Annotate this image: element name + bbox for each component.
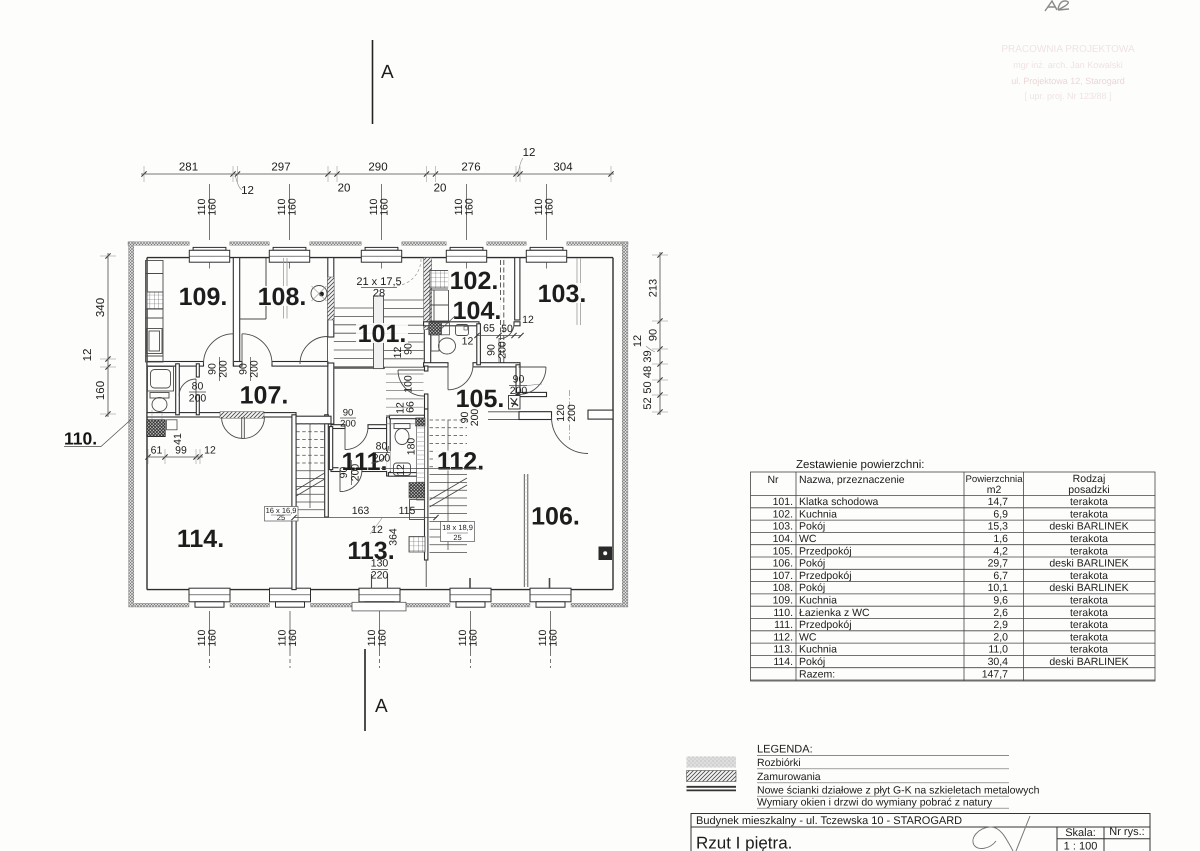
sink room 113 grid: [409, 537, 425, 553]
wall 101|102 with zamurowanie: [424, 258, 430, 366]
door 111 top: [345, 427, 368, 450]
zamurowanie patch in wall 108|101: [328, 277, 335, 320]
svg-text:Klatka schodowa: Klatka schodowa: [799, 496, 879, 508]
svg-text:220: 220: [371, 570, 389, 582]
svg-text:deski BARLINEK: deski BARLINEK: [1049, 558, 1128, 570]
door 110: [179, 379, 196, 396]
svg-text:39: 39: [642, 350, 654, 362]
svg-text:200: 200: [249, 360, 261, 378]
svg-text:12: 12: [523, 147, 536, 159]
wall 110,107|114: [147, 413, 296, 417]
wall 103|106 left of door: [519, 412, 552, 420]
svg-text:Budynek mieszkalny - ul. Tczew: Budynek mieszkalny - ul. Tczewska 10 - S…: [696, 815, 962, 827]
svg-text:Skala:: Skala:: [1065, 827, 1096, 839]
stair main 101 left flight: [334, 308, 385, 368]
svg-text:Nr: Nr: [767, 474, 779, 486]
toilet room 104: [431, 335, 456, 354]
svg-text:9,6: 9,6: [993, 595, 1008, 607]
svg-text:102.: 102.: [773, 508, 793, 520]
table rows: [773, 496, 1129, 680]
svg-text:Rzut I piętra.: Rzut I piętra.: [696, 834, 792, 851]
svg-text:Zamurowania: Zamurowania: [757, 771, 821, 783]
svg-text:50: 50: [501, 323, 513, 335]
left dimension column: [82, 253, 116, 417]
svg-text:deski BARLINEK: deski BARLINEK: [1049, 521, 1128, 533]
wall 111,112 vertical: [387, 417, 391, 476]
signature squiggle: [973, 816, 1030, 851]
svg-text:200: 200: [373, 453, 391, 465]
svg-text:1,6: 1,6: [993, 533, 1008, 545]
svg-text:160: 160: [207, 629, 219, 647]
svg-text:mgr inż. arch. Jan Kowalski: mgr inż. arch. Jan Kowalski: [1013, 60, 1123, 70]
svg-text:20: 20: [434, 183, 447, 195]
stove circle room 108: [311, 286, 327, 302]
svg-text:LEGENDA:: LEGENDA:: [757, 744, 813, 756]
svg-text:200: 200: [469, 409, 481, 427]
svg-text:25: 25: [453, 533, 461, 542]
svg-text:ul. Projektowa 12, Starogard: ul. Projektowa 12, Starogard: [1011, 76, 1125, 86]
wall 105 nook bottom: [518, 392, 547, 396]
washbasin room 112: [394, 463, 411, 476]
section line A bottom: [364, 649, 366, 731]
legend zamurowania swatch: [687, 771, 737, 782]
room110 wall right: [176, 364, 180, 415]
wall 104 right side: [477, 324, 481, 365]
washbasin room 104: [456, 325, 469, 336]
stair main 101 stringer: [374, 296, 384, 369]
svg-text:114.: 114.: [773, 656, 793, 668]
svg-text:Nr rys.:: Nr rys.:: [1109, 826, 1144, 838]
balcony door jambs: [372, 574, 388, 589]
door 120 to room 106: [552, 417, 589, 454]
room 111 left wall: [329, 427, 332, 470]
svg-text:Pokój: Pokój: [799, 558, 825, 570]
svg-text:A: A: [375, 696, 388, 717]
door 109: [204, 334, 234, 364]
right dimension column: [632, 252, 668, 415]
wall 109|108: [233, 258, 239, 366]
svg-text:90: 90: [338, 467, 350, 479]
svg-text:12: 12: [522, 314, 534, 326]
svg-text:terakota: terakota: [1070, 631, 1108, 643]
svg-text:99: 99: [175, 445, 187, 457]
legend g-k walls swatch: [687, 786, 737, 788]
svg-text:52: 52: [642, 397, 654, 409]
svg-text:160: 160: [468, 629, 480, 647]
svg-text:25: 25: [277, 513, 285, 522]
svg-text:110.: 110.: [773, 607, 793, 619]
svg-text:90: 90: [648, 329, 660, 341]
wall segment 104|102 right + door 50: [514, 322, 520, 326]
svg-text:213: 213: [648, 279, 660, 297]
wall 102|104: [424, 322, 479, 326]
svg-text:200: 200: [497, 341, 509, 359]
svg-text:12: 12: [395, 464, 407, 476]
toilet room 110: [150, 393, 169, 412]
wall 102|103: [515, 258, 520, 320]
entry corridor steps below stair: [386, 374, 424, 424]
svg-text:160: 160: [377, 629, 389, 647]
door 104 to 105: [448, 365, 473, 390]
svg-text:105.: 105.: [773, 545, 793, 557]
svg-text:200: 200: [566, 404, 578, 422]
svg-text:110.: 110.: [64, 429, 97, 449]
svg-text:109.: 109.: [773, 595, 793, 607]
wall 105|103 lower: [516, 365, 520, 395]
wall 103,105|106 thin double: [488, 412, 552, 420]
svg-text:Zestawienie powierzchni:: Zestawienie powierzchni:: [796, 459, 924, 471]
small cabinet right of chimney: [167, 420, 178, 430]
partition 105|103 double line: [501, 260, 504, 364]
svg-text:1 : 100: 1 : 100: [1064, 841, 1098, 851]
svg-text:112.: 112.: [437, 448, 484, 476]
dashed door swing stairwell top: [394, 259, 421, 286]
svg-text:65: 65: [483, 323, 495, 335]
svg-text:Pokój: Pokój: [799, 521, 825, 533]
fixture room 105 dark: [509, 396, 521, 410]
table header: [767, 473, 1109, 496]
svg-text:50: 50: [642, 381, 654, 393]
corridor right wall stubs: [425, 366, 428, 371]
wall 103|106 right of door: [588, 410, 613, 419]
leader under 112: [381, 468, 481, 470]
exterior wall top hatched band: [128, 242, 628, 245]
svg-text:Przedpokój: Przedpokój: [799, 545, 852, 557]
svg-text:11,0: 11,0: [988, 644, 1008, 656]
svg-text:Pokój: Pokój: [799, 656, 825, 668]
svg-text:terakota: terakota: [1070, 496, 1108, 508]
svg-text:28: 28: [373, 288, 385, 300]
svg-text:160: 160: [95, 381, 107, 400]
svg-text:115: 115: [399, 505, 416, 517]
svg-text:Kuchnia: Kuchnia: [799, 508, 837, 520]
svg-text:Razem:: Razem:: [799, 668, 835, 680]
svg-text:163: 163: [352, 505, 370, 517]
exterior wall bottom hatched band: [135, 603, 622, 607]
bottom windows: [189, 588, 571, 607]
wall 104|105: [424, 363, 448, 367]
svg-text:90: 90: [403, 343, 415, 355]
kitchen counter room 109: [146, 261, 164, 363]
svg-text:61: 61: [151, 445, 163, 457]
demolition line in room 103: [577, 258, 581, 325]
svg-text:113.: 113.: [773, 644, 793, 656]
door 101 to 105 entry: [398, 370, 424, 396]
leader 104: [440, 316, 455, 330]
svg-text:104.: 104.: [773, 533, 793, 545]
svg-text:108.: 108.: [773, 582, 793, 594]
svg-text:340: 340: [95, 298, 107, 317]
faint stamp top right: [1001, 44, 1135, 101]
room 111 bottom wall: [331, 468, 340, 472]
section line A top: [372, 40, 374, 124]
svg-text:[ upr. proj. Nr 123/88 ]: [ upr. proj. Nr 123/88 ]: [1024, 91, 1111, 101]
svg-text:101.: 101.: [358, 320, 407, 348]
svg-text:4,2: 4,2: [993, 545, 1008, 557]
partition rungs: [524, 476, 528, 584]
svg-text:109.: 109.: [179, 283, 228, 311]
svg-text:103.: 103.: [773, 521, 793, 533]
stair main 101 right flight: [384, 300, 424, 367]
svg-text:6,7: 6,7: [993, 570, 1008, 582]
svg-text:2,0: 2,0: [993, 631, 1008, 643]
svg-text:30,4: 30,4: [988, 656, 1009, 668]
stove room 102 dark: [429, 323, 442, 335]
wall 112 bottom: [388, 473, 427, 477]
demolition line in room 108: [284, 258, 288, 319]
washbasin room 110 dashed: [152, 410, 162, 424]
svg-text:2,6: 2,6: [993, 607, 1008, 619]
exterior wall left hatched band: [129, 242, 134, 607]
svg-text:15,3: 15,3: [988, 521, 1009, 533]
svg-text:160: 160: [544, 198, 556, 216]
svg-text:deski BARLINEK: deski BARLINEK: [1049, 582, 1128, 594]
svg-text:48: 48: [642, 366, 654, 378]
bottom window centerlines and labels: [196, 611, 560, 668]
dim 61 99 12 under room 110: [145, 445, 216, 465]
double door 107 to 114: [222, 417, 265, 439]
room 111 top wall: [331, 425, 345, 429]
svg-text:Rozbiórki: Rozbiórki: [757, 757, 801, 769]
svg-text:6,9: 6,9: [993, 508, 1008, 520]
svg-text:200: 200: [218, 360, 230, 378]
handwritten A2 mark: [1045, 1, 1069, 11]
door 105 to 103 nook: [519, 367, 547, 395]
svg-text:114.: 114.: [177, 525, 224, 553]
svg-text:200: 200: [510, 385, 528, 397]
svg-text:108.: 108.: [258, 283, 307, 311]
svg-text:12: 12: [241, 185, 254, 197]
kitchen block room 102: [430, 271, 449, 322]
svg-text:276: 276: [461, 162, 480, 174]
svg-text:21 x 17,5: 21 x 17,5: [356, 276, 401, 288]
svg-text:14,7: 14,7: [988, 496, 1009, 508]
door 108: [242, 334, 272, 364]
svg-text:160: 160: [207, 198, 219, 216]
partition 113|106 G-K: [524, 474, 528, 587]
dim 120/200 door 106 rotated: [569, 390, 571, 440]
top window centerlines and labels: [196, 184, 556, 240]
svg-text:terakota: terakota: [1070, 545, 1108, 557]
svg-text:20: 20: [338, 183, 351, 195]
wall fixture room 106: [599, 547, 613, 561]
dim 163: [291, 505, 438, 520]
svg-text:12: 12: [82, 349, 94, 362]
svg-text:terakota: terakota: [1070, 508, 1108, 520]
svg-text:12: 12: [632, 335, 644, 347]
svg-text:101.: 101.: [773, 496, 793, 508]
top windows: [189, 247, 566, 268]
wall 109,108|107: [147, 362, 204, 367]
top dimension line: [141, 166, 614, 182]
svg-text:Przedpokój: Przedpokój: [799, 570, 852, 582]
svg-text:103.: 103.: [538, 280, 587, 308]
door 112: [371, 446, 388, 463]
svg-text:Przedpokój: Przedpokój: [799, 619, 852, 631]
bathtub room 110: [148, 367, 174, 392]
svg-text:terakota: terakota: [1070, 533, 1108, 545]
svg-text:281: 281: [179, 162, 198, 174]
svg-text:107.: 107.: [240, 382, 289, 410]
room labels: [175, 267, 589, 565]
svg-text:106.: 106.: [531, 503, 580, 531]
svg-text:304: 304: [553, 162, 573, 174]
title block frame: [691, 814, 1150, 851]
svg-text:130: 130: [371, 558, 389, 570]
svg-text:297: 297: [271, 162, 290, 174]
top dimension texts: [179, 147, 573, 197]
svg-text:160: 160: [287, 198, 299, 216]
svg-text:Kuchnia: Kuchnia: [799, 595, 837, 607]
svg-text:PRACOWNIA PROJEKTOWA: PRACOWNIA PROJEKTOWA: [1001, 44, 1135, 55]
svg-text:posadzki: posadzki: [1068, 484, 1109, 496]
svg-text:80: 80: [192, 381, 204, 393]
svg-text:147,7: 147,7: [982, 668, 1008, 680]
svg-text:160: 160: [464, 198, 476, 216]
svg-text:A: A: [381, 62, 394, 83]
svg-text:WC: WC: [799, 631, 817, 643]
wall 114|stairA: [292, 415, 296, 590]
svg-text:160: 160: [548, 629, 560, 647]
svg-text:111.: 111.: [774, 619, 793, 631]
balcony slab below window 3: [352, 602, 406, 611]
door 102 small: [499, 324, 514, 339]
svg-text:terakota: terakota: [1070, 570, 1108, 582]
svg-text:90: 90: [513, 374, 525, 386]
room110 inner wall: [196, 364, 199, 377]
svg-text:104.: 104.: [453, 297, 502, 325]
door 111 bottom: [340, 470, 362, 492]
kitchen room 113 fixtures: [409, 483, 425, 499]
svg-text:Kuchnia: Kuchnia: [799, 644, 837, 656]
svg-text:41: 41: [172, 433, 184, 445]
svg-text:Łazienka z WC: Łazienka z WC: [799, 607, 870, 619]
svg-text:Nazwa, przeznaczenie: Nazwa, przeznaczenie: [799, 474, 905, 486]
svg-text:terakota: terakota: [1070, 644, 1108, 656]
svg-text:107.: 107.: [773, 570, 793, 582]
area table: [751, 472, 1156, 681]
ventilation shaft hatched: [417, 418, 425, 500]
svg-text:WC: WC: [799, 533, 817, 545]
stair A label 16 x 16,9 / 25: [265, 507, 299, 522]
wall 108|101: [328, 258, 334, 337]
zamurowanie lintel in wall 107|114: [220, 412, 264, 419]
chimney block dark: [147, 420, 165, 437]
wardrobe partition room 108: [240, 258, 266, 319]
svg-text:deski BARLINEK: deski BARLINEK: [1049, 656, 1128, 668]
svg-text:Wymiary okien i drzwi do wymia: Wymiary okien i drzwi do wymiany pobrać …: [757, 797, 993, 809]
svg-text:90: 90: [343, 408, 354, 419]
wall stairA|113: [325, 415, 329, 517]
svg-text:200: 200: [340, 419, 356, 430]
svg-text:m2: m2: [987, 484, 1002, 496]
legend rozbiorki swatch: [687, 757, 737, 768]
svg-text:180: 180: [406, 438, 418, 456]
exterior wall right hatched band: [622, 242, 628, 607]
svg-text:18 x 18,9: 18 x 18,9: [442, 523, 473, 532]
svg-text:10,1: 10,1: [988, 582, 1009, 594]
svg-text:160: 160: [379, 198, 391, 216]
corridor wall above 112: [390, 415, 428, 418]
svg-text:100: 100: [403, 375, 415, 393]
svg-text:terakota: terakota: [1070, 607, 1108, 619]
svg-text:12: 12: [204, 445, 216, 457]
dim 65 50 12 room 102: [474, 314, 534, 338]
svg-text:29,7: 29,7: [988, 558, 1009, 570]
svg-text:terakota: terakota: [1070, 595, 1108, 607]
svg-text:Pokój: Pokój: [799, 582, 825, 594]
exterior wall interior face lines: [147, 258, 613, 590]
svg-text:2,9: 2,9: [993, 619, 1008, 631]
svg-text:200: 200: [350, 464, 362, 482]
svg-text:112.: 112.: [773, 631, 793, 643]
door 101 to 107: [300, 337, 328, 365]
svg-text:80: 80: [376, 441, 388, 453]
svg-text:12: 12: [371, 524, 383, 536]
stair A treads: [296, 424, 324, 510]
svg-text:364: 364: [388, 528, 400, 546]
stair B treads: [430, 420, 468, 553]
shaft wall 113: [425, 409, 428, 560]
svg-text:160: 160: [287, 629, 299, 647]
stair B label 18 x 18,9 / 25: [441, 522, 475, 542]
svg-text:12: 12: [462, 336, 474, 348]
svg-text:106.: 106.: [773, 558, 793, 570]
svg-text:102.: 102.: [450, 267, 499, 295]
svg-text:terakota: terakota: [1070, 619, 1108, 631]
svg-text:66: 66: [405, 401, 417, 413]
wall joint 107-111: [296, 416, 331, 424]
svg-text:Nowe ścianki działowe z płyt G: Nowe ścianki działowe z płyt G-K na szki…: [757, 785, 1040, 797]
svg-text:200: 200: [189, 393, 207, 405]
bottom wall stubs: [470, 578, 550, 588]
toilet room 112: [394, 424, 410, 445]
svg-text:290: 290: [368, 162, 387, 174]
